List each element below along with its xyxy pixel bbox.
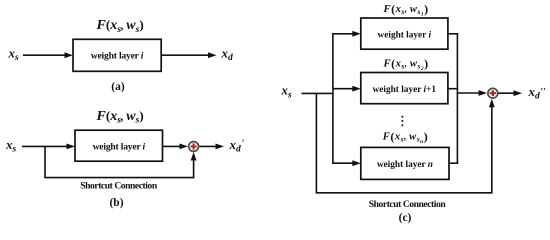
wire box3 output (c) bbox=[449, 162, 458, 164]
label F(xs,ws2) (c) bbox=[383, 56, 429, 72]
label Shortcut Connection (c) bbox=[369, 199, 447, 210]
label F(xs,wsn) (c) bbox=[382, 130, 428, 146]
wire shortcut (b) bbox=[45, 146, 197, 177]
svg-text:weight layer i+1: weight layer i+1 bbox=[373, 85, 437, 95]
node x_d (a) bbox=[221, 46, 234, 64]
block weight layer i (c) bbox=[361, 18, 448, 49]
svg-text:Shortcut Connection: Shortcut Connection bbox=[369, 199, 447, 210]
wire merge-to-adder arrow (c) bbox=[457, 90, 487, 96]
wire box2 output (c) bbox=[448, 88, 458, 90]
wire box1 output (c) bbox=[448, 33, 458, 35]
wire main input (c) bbox=[302, 92, 334, 94]
wire input arrow (b) bbox=[22, 144, 75, 150]
adder circle (c) bbox=[488, 88, 498, 98]
svg-text:(c): (c) bbox=[399, 212, 412, 224]
label F(xs,ws) (b) bbox=[96, 108, 144, 126]
wire box-to-adder arrow (b) bbox=[163, 144, 189, 150]
wire branch arrow 3 (c) bbox=[333, 160, 361, 166]
node x_s (c) bbox=[281, 83, 293, 101]
svg-text:(b): (b) bbox=[109, 197, 123, 209]
wire adder-to-xd' arrow (b) bbox=[199, 144, 224, 150]
block weight layer i (a) bbox=[73, 39, 161, 71]
node x_s (b) bbox=[5, 137, 17, 155]
label Shortcut Connection (b) bbox=[80, 180, 158, 191]
block weight layer i+1 (c) bbox=[361, 73, 448, 104]
label F(xs,ws1) (c) bbox=[383, 2, 429, 18]
dots vertical ellipsis (c) bbox=[401, 116, 403, 126]
adder circle (b) bbox=[189, 142, 199, 152]
wire branch arrow 2 (c) bbox=[333, 86, 361, 92]
svg-text:weight layer i: weight layer i bbox=[93, 141, 146, 152]
block weight layer i (b) bbox=[75, 130, 163, 161]
svg-text:weight layer i: weight layer i bbox=[378, 31, 432, 41]
wire output arrow (a) bbox=[161, 52, 216, 58]
svg-text:(a): (a) bbox=[111, 81, 125, 93]
wire branch vertical (c) bbox=[332, 33, 334, 164]
block weight layer n (c) bbox=[361, 147, 449, 179]
node x_d'' (c) bbox=[528, 84, 547, 102]
svg-text:weight layer n: weight layer n bbox=[377, 160, 433, 170]
label F(xs,ws) (a) bbox=[96, 17, 144, 35]
caption (c) bbox=[399, 212, 412, 224]
svg-text:Shortcut Connection: Shortcut Connection bbox=[80, 180, 158, 191]
caption (a) bbox=[111, 81, 125, 93]
wire shortcut (c) bbox=[316, 93, 494, 192]
wire branch arrow 1 (c) bbox=[333, 31, 361, 37]
svg-text:weight layer i: weight layer i bbox=[91, 51, 144, 62]
wire merge vertical (c) bbox=[456, 33, 458, 164]
wire adder-to-xd'' arrow (c) bbox=[499, 90, 523, 96]
caption (b) bbox=[109, 197, 123, 209]
node x_s (a) bbox=[8, 46, 20, 64]
wire input arrow (a) bbox=[23, 52, 73, 58]
node x_d' (b) bbox=[229, 137, 245, 155]
